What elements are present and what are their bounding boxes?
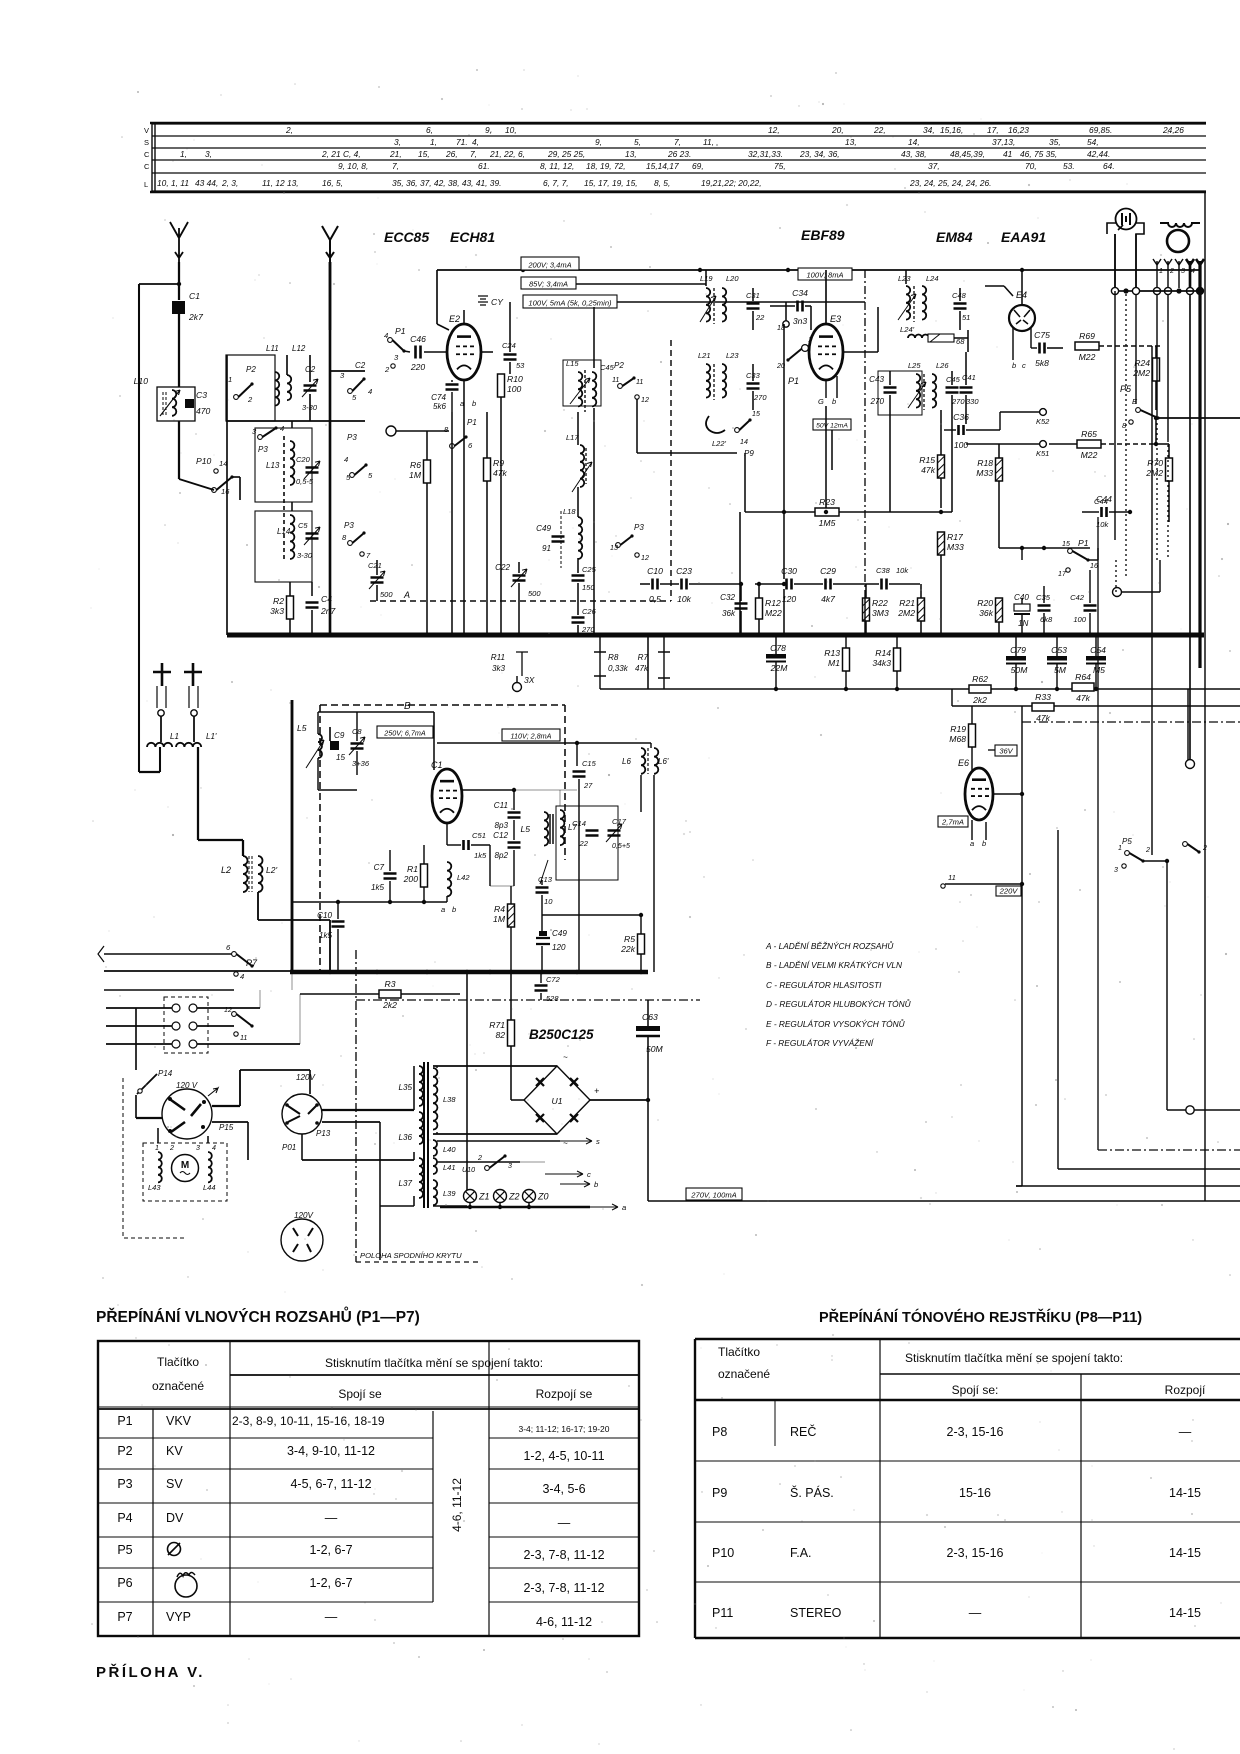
resistor R18	[976, 458, 1002, 481]
box L18 dash	[560, 511, 562, 568]
svg-text:3-30: 3-30	[297, 551, 313, 560]
lamp Z1	[464, 1190, 490, 1203]
wire	[239, 1070, 241, 1106]
svg-text:KV: KV	[166, 1444, 183, 1458]
svg-text:P01: P01	[282, 1143, 296, 1152]
label box 220V	[996, 886, 1021, 896]
trimmer arrow	[898, 294, 916, 320]
wire IF1 top	[593, 307, 595, 368]
capacitor	[369, 571, 385, 589]
svg-text:VYP: VYP	[166, 1610, 191, 1624]
svg-text:L44: L44	[203, 1183, 216, 1192]
wire	[469, 1203, 471, 1207]
coil	[275, 372, 279, 406]
wire	[1168, 444, 1170, 458]
capacitor C54	[1086, 645, 1106, 675]
wire	[951, 371, 953, 385]
capacitor	[960, 388, 973, 393]
dash-dot row 1150	[1098, 1149, 1240, 1151]
coil	[290, 515, 294, 559]
junction	[509, 970, 513, 974]
wire	[106, 1043, 172, 1045]
wire 745 drop	[744, 453, 746, 512]
wire row 915	[542, 914, 641, 916]
svg-text:ECC85: ECC85	[384, 229, 429, 245]
wire C23 drop	[739, 584, 741, 635]
svg-text:16, 5,: 16, 5,	[322, 178, 343, 188]
wire	[510, 1046, 512, 1100]
capacitor	[304, 461, 320, 479]
junction	[1158, 633, 1163, 638]
wire	[650, 743, 652, 748]
svg-text:16: 16	[1090, 562, 1098, 570]
wire	[413, 1196, 415, 1206]
svg-text:C45: C45	[946, 375, 961, 384]
svg-text:P3: P3	[347, 433, 357, 442]
wire	[451, 380, 453, 382]
label box 100V, 5mA (5k, 0,25min)	[523, 295, 617, 308]
svg-text:P3: P3	[258, 445, 268, 454]
svg-text:C17: C17	[612, 817, 627, 826]
svg-text:M68: M68	[949, 734, 966, 744]
svg-text:14: 14	[740, 438, 748, 446]
wire	[670, 340, 672, 601]
svg-text:P13: P13	[316, 1129, 331, 1138]
svg-text:F.A.: F.A.	[790, 1546, 812, 1560]
wire	[481, 351, 493, 353]
motor M	[172, 1155, 199, 1182]
svg-text:69,: 69,	[692, 161, 704, 171]
junction	[1020, 546, 1024, 550]
svg-text:3X: 3X	[524, 675, 535, 685]
resistor R22	[863, 598, 889, 621]
svg-text:15, 17, 19, 15,: 15, 17, 19, 15,	[584, 178, 638, 188]
svg-text:R3: R3	[385, 979, 396, 989]
svg-text:24,26: 24,26	[1162, 125, 1184, 135]
capacitor	[508, 813, 521, 818]
band frame heavy top/bottom	[150, 123, 1206, 192]
svg-text:22M: 22M	[770, 663, 789, 673]
wire	[106, 1007, 172, 1009]
svg-text:1,: 1,	[430, 137, 437, 147]
terminal	[1153, 287, 1160, 294]
wire	[330, 370, 365, 372]
wire	[1159, 560, 1161, 592]
wire down from phono L	[1114, 294, 1116, 540]
arrow a	[590, 1204, 618, 1210]
wire	[1198, 265, 1201, 288]
wire	[1056, 664, 1058, 689]
wire	[577, 625, 579, 635]
wire	[640, 583, 650, 585]
svg-text:9,: 9,	[595, 137, 602, 147]
svg-text:R11: R11	[491, 653, 505, 662]
svg-text:+: +	[594, 1086, 599, 1096]
svg-text:C10: C10	[317, 911, 332, 920]
wire	[985, 822, 987, 840]
wire	[640, 775, 642, 812]
trimmer arrow L17	[572, 462, 592, 492]
svg-text:U10: U10	[462, 1166, 475, 1174]
coil L26	[932, 374, 936, 408]
wire C1 grid row	[462, 789, 514, 791]
svg-text:4,: 4,	[472, 137, 479, 147]
wire	[302, 1159, 414, 1161]
svg-text:500: 500	[380, 590, 393, 599]
wire	[511, 1099, 524, 1101]
junction	[375, 633, 380, 638]
label box 36V	[995, 745, 1017, 756]
svg-text:3: 3	[1181, 267, 1185, 275]
junction	[517, 633, 522, 638]
svg-text:E3: E3	[830, 314, 841, 324]
dot wire 1157	[1156, 418, 1158, 560]
svg-text:M22: M22	[765, 608, 782, 618]
capacitor	[1038, 606, 1051, 611]
svg-text:10: 10	[544, 897, 553, 906]
wire	[505, 1161, 545, 1163]
svg-text:L15: L15	[566, 359, 579, 368]
svg-text:R65: R65	[1081, 429, 1097, 439]
svg-text:L10: L10	[134, 376, 149, 386]
table2 header lines	[880, 1373, 1240, 1375]
capacitor	[882, 579, 887, 590]
svg-text:11, 12 13,: 11, 12 13,	[262, 178, 299, 188]
wire	[833, 583, 879, 585]
wire	[577, 412, 579, 445]
svg-text:R20: R20	[977, 598, 993, 608]
svg-text:12: 12	[641, 554, 649, 562]
svg-text:R5: R5	[624, 934, 635, 944]
svg-text:L20: L20	[726, 274, 739, 283]
svg-text:DV: DV	[166, 1511, 184, 1525]
svg-text:15,14,17: 15,14,17	[646, 161, 679, 171]
junction	[1128, 510, 1132, 514]
box L13	[255, 428, 312, 502]
wire	[178, 421, 180, 479]
coil L16	[592, 372, 596, 406]
svg-text:Rozpojí se: Rozpojí se	[536, 1387, 593, 1401]
wire	[426, 431, 428, 460]
wire E3 out	[825, 406, 827, 470]
wire	[825, 470, 827, 508]
wire	[559, 790, 561, 806]
wire	[541, 880, 543, 885]
wire L38 top to bridge	[433, 1065, 557, 1067]
wire	[197, 1043, 300, 1045]
svg-text:4-6, 11-12: 4-6, 11-12	[536, 1615, 592, 1629]
arrow c	[545, 1171, 583, 1177]
junction	[895, 687, 899, 691]
resistor R3	[379, 979, 401, 1010]
coil	[433, 1180, 437, 1205]
svg-text:35,: 35,	[1049, 137, 1061, 147]
wire	[499, 1203, 501, 1207]
svg-text:26,: 26,	[445, 149, 458, 159]
wire	[1167, 265, 1169, 288]
wire	[160, 716, 162, 742]
svg-text:3+36: 3+36	[352, 759, 370, 768]
svg-text:D - REGULÁTOR HLUBOKÝCH TÓNŮ: D - REGULÁTOR HLUBOKÝCH TÓNŮ	[766, 998, 912, 1009]
junction	[375, 970, 379, 974]
svg-text:22: 22	[755, 313, 765, 322]
trimmer arrow	[908, 382, 926, 408]
svg-text:1-2, 4-5, 10-11: 1-2, 4-5, 10-11	[523, 1449, 604, 1463]
svg-text:B: B	[404, 701, 411, 712]
capacitor	[508, 843, 521, 848]
wire	[309, 394, 311, 421]
svg-text:L42: L42	[457, 873, 470, 882]
svg-text:53.: 53.	[1063, 161, 1075, 171]
wire	[755, 583, 784, 585]
resistor R12	[756, 598, 782, 619]
wire row 689	[600, 688, 1240, 690]
wire	[212, 1121, 248, 1123]
wire lamp line	[440, 1206, 590, 1208]
wire	[509, 362, 511, 374]
label box 50V 12mA	[813, 419, 851, 430]
wire	[889, 583, 920, 585]
svg-text:C72: C72	[546, 975, 561, 984]
wire R8 bottom	[599, 676, 601, 689]
junction	[633, 633, 638, 638]
wire	[1095, 664, 1097, 689]
coil L20	[722, 288, 726, 322]
resistor R70	[1145, 458, 1172, 481]
svg-text:47k: 47k	[1076, 693, 1091, 703]
wire row 1110	[1167, 1109, 1240, 1111]
switch	[618, 376, 636, 388]
svg-text:C21: C21	[368, 561, 382, 570]
junction	[465, 970, 469, 974]
svg-text:2-3, 15-16: 2-3, 15-16	[947, 1425, 1004, 1439]
svg-text:E - REGULÁTOR VYSOKÝCH TÓNŮ: E - REGULÁTOR VYSOKÝCH TÓNŮ	[766, 1018, 906, 1029]
wire	[576, 743, 578, 766]
label box 250V; 6,7mA	[377, 726, 433, 738]
svg-text:17: 17	[1058, 570, 1067, 578]
coil L23	[722, 364, 726, 398]
coil	[287, 375, 291, 400]
junction	[575, 741, 579, 745]
wire	[1088, 559, 1098, 561]
svg-text:15,: 15,	[418, 149, 430, 159]
svg-text:C63: C63	[642, 1012, 658, 1022]
svg-text:100V, 5mA (5k, 0,25min): 100V, 5mA (5k, 0,25min)	[528, 299, 612, 308]
svg-text:L5: L5	[520, 824, 530, 834]
resistor R11	[491, 652, 528, 676]
svg-text:1: 1	[228, 375, 232, 384]
wire	[951, 689, 953, 706]
dash wire R69	[1099, 345, 1160, 347]
capacitor	[446, 385, 459, 390]
wire	[1155, 418, 1157, 444]
wire	[794, 583, 823, 585]
svg-text:20,: 20,	[831, 125, 844, 135]
svg-text:120V: 120V	[296, 1073, 317, 1082]
wire row 421	[226, 420, 365, 422]
svg-text:42,44.: 42,44.	[1087, 149, 1110, 159]
wire	[1101, 443, 1156, 445]
svg-text:9,: 9,	[485, 125, 492, 135]
capacitor	[349, 737, 365, 755]
wire	[647, 1000, 649, 1026]
junction	[678, 633, 683, 638]
table2 row lines	[695, 1460, 1240, 1462]
wire	[1155, 381, 1157, 410]
wire	[1030, 328, 1032, 345]
svg-text:L37: L37	[398, 1179, 412, 1188]
junction	[1014, 687, 1018, 691]
capacitor C4	[306, 594, 337, 616]
svg-text:Stisknutím tlačítka mění se sp: Stisknutím tlačítka mění se spojení takt…	[905, 1351, 1123, 1365]
coil	[318, 734, 322, 758]
svg-text:8p3: 8p3	[494, 821, 508, 830]
wire R3 right	[401, 993, 460, 995]
wire top rail 200V	[437, 269, 1199, 271]
svg-text:R15: R15	[919, 455, 935, 465]
svg-text:1M5: 1M5	[819, 518, 836, 528]
wire	[1097, 548, 1099, 560]
capacitor	[572, 576, 585, 581]
svg-text:M22: M22	[1079, 352, 1096, 362]
wire L6' down	[653, 775, 655, 972]
wire	[247, 1122, 249, 1160]
svg-text:16,23: 16,23	[1008, 125, 1029, 135]
svg-text:51: 51	[962, 313, 970, 322]
wire	[965, 352, 967, 385]
wire	[754, 583, 756, 585]
terminal	[1111, 287, 1118, 294]
wire E2 cathode to bus	[463, 380, 465, 635]
svg-text:L25: L25	[908, 361, 921, 370]
junction	[336, 900, 340, 904]
resistor R4	[493, 904, 514, 927]
wire	[1121, 591, 1160, 593]
junction	[1123, 288, 1128, 293]
wire row 1186	[1016, 1185, 1240, 1187]
svg-text:4: 4	[344, 455, 348, 464]
svg-text:P7: P7	[117, 1610, 132, 1624]
wire	[1178, 265, 1180, 288]
switch	[1125, 851, 1145, 863]
svg-text:2-3, 7-8, 11-12: 2-3, 7-8, 11-12	[523, 1548, 604, 1562]
junction	[782, 582, 786, 586]
svg-text:L22': L22'	[712, 439, 727, 448]
coil L22 contacts	[706, 416, 725, 433]
svg-text:R21: R21	[899, 598, 915, 608]
table2 P8 cell divider	[774, 1400, 776, 1446]
wire	[436, 1066, 438, 1068]
wire	[518, 562, 520, 573]
svg-text:12,: 12,	[768, 125, 780, 135]
svg-text:C - REGULÁTOR HLASITOSTI: C - REGULÁTOR HLASITOSTI	[766, 980, 882, 990]
switch	[348, 531, 366, 545]
wire	[318, 789, 357, 791]
coil	[419, 1158, 423, 1198]
svg-text:V: V	[144, 126, 149, 135]
svg-text:270V, 100mA: 270V, 100mA	[690, 1191, 736, 1200]
svg-text:C4: C4	[321, 594, 332, 604]
terminal	[1164, 287, 1171, 294]
junction	[1154, 442, 1158, 446]
capacitor	[536, 888, 549, 893]
wire vertical 467	[466, 972, 468, 1190]
wire	[636, 399, 638, 453]
wire to E2 anode	[436, 270, 438, 324]
svg-text:Spojí se:: Spojí se:	[952, 1383, 999, 1397]
wire	[240, 1069, 310, 1071]
svg-text:L21: L21	[698, 351, 711, 360]
wire	[139, 283, 179, 285]
wire K52	[1000, 411, 1039, 413]
junction	[288, 633, 293, 638]
coil	[258, 856, 263, 892]
wire	[1015, 635, 1017, 656]
svg-text:10,: 10,	[505, 125, 517, 135]
svg-text:L: L	[144, 180, 148, 189]
resistor R15	[919, 455, 944, 478]
wire	[920, 584, 922, 598]
coil	[419, 1066, 423, 1106]
svg-text:A - LADĚNÍ BĚŽNÝCH ROZSAHŮ: A - LADĚNÍ BĚŽNÝCH ROZSAHŮ	[765, 940, 894, 951]
wire	[1095, 635, 1097, 656]
wire down from phono R	[1135, 294, 1137, 404]
wire	[810, 306, 812, 330]
svg-text:14,: 14,	[908, 137, 920, 147]
wire	[309, 355, 311, 382]
svg-text:L18: L18	[563, 507, 576, 516]
svg-text:19,21,22; 20,22,: 19,21,22; 20,22,	[701, 178, 762, 188]
filter choke pair	[172, 1040, 180, 1048]
junction	[782, 633, 787, 638]
svg-text:70,: 70,	[1025, 161, 1037, 171]
svg-text:C78: C78	[770, 643, 786, 653]
wire	[944, 429, 956, 431]
junction	[824, 510, 828, 514]
coil	[578, 517, 582, 559]
box L14	[255, 511, 312, 582]
svg-text:EM84: EM84	[936, 229, 973, 245]
svg-text:C36: C36	[953, 412, 969, 422]
svg-text:R14: R14	[875, 648, 891, 658]
coil L13 core	[283, 436, 285, 561]
svg-text:0,5+5: 0,5+5	[612, 842, 630, 850]
tube E2	[447, 324, 481, 380]
terminal	[1132, 287, 1139, 294]
wire	[752, 311, 754, 330]
svg-text:1: 1	[1118, 844, 1122, 852]
pickup icon P5	[168, 1543, 181, 1556]
core	[647, 748, 649, 774]
svg-text:200: 200	[403, 874, 419, 884]
terminal	[1186, 760, 1195, 769]
wire vertical 1058	[1057, 830, 1059, 1169]
svg-text:P11: P11	[712, 1606, 733, 1620]
switch	[450, 435, 468, 448]
svg-text:3k3: 3k3	[492, 664, 506, 673]
svg-text:P5: P5	[1122, 837, 1132, 846]
svg-text:SV: SV	[166, 1477, 183, 1491]
resistor R33	[1032, 692, 1054, 723]
wire	[513, 790, 515, 810]
wire	[486, 412, 488, 458]
wire	[514, 789, 577, 791]
svg-text:22k: 22k	[620, 944, 636, 954]
svg-text:7,: 7,	[674, 137, 681, 147]
wire	[437, 1161, 520, 1163]
svg-text:L23: L23	[898, 274, 911, 283]
capacitor C9	[330, 731, 346, 762]
